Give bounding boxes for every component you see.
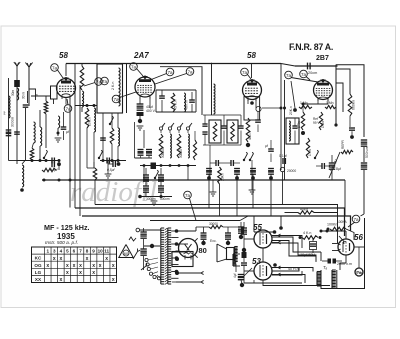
svg-text:5: 5: [66, 249, 69, 254]
svg-text:8µf: 8µf: [336, 167, 341, 171]
svg-text:2A7: 2A7: [133, 51, 149, 60]
svg-text:20000: 20000: [287, 169, 296, 173]
svg-text:Pm: Pm: [356, 270, 363, 275]
svg-text:500cm: 500cm: [160, 197, 170, 201]
svg-text:300cm: 300cm: [146, 197, 156, 201]
svg-text:Exc.: Exc.: [210, 239, 217, 243]
svg-text:4 K.n: 4 K.n: [303, 231, 311, 235]
svg-text:4: 4: [60, 249, 63, 254]
svg-text:T₆: T₆: [323, 265, 328, 270]
svg-text:20Kn: 20Kn: [221, 173, 225, 181]
svg-text:LG: LG: [35, 270, 42, 275]
svg-text:40 H.n: 40 H.n: [288, 267, 299, 271]
svg-text:7a: 7a: [353, 217, 359, 222]
svg-text:x: x: [99, 263, 102, 269]
svg-text:10: 10: [98, 249, 104, 254]
svg-text:7a: 7a: [52, 65, 58, 70]
svg-text:30m: 30m: [11, 89, 15, 96]
svg-text:µµ: µµ: [2, 111, 6, 115]
svg-text:x: x: [53, 256, 56, 262]
svg-text:500n.m: 500n.m: [365, 147, 369, 158]
svg-text:1 Rn: 1 Rn: [297, 121, 301, 128]
svg-text:600Kn: 600Kn: [352, 100, 356, 110]
svg-text:1: 1: [46, 249, 49, 254]
svg-text:XX: XX: [35, 277, 42, 282]
svg-text:80: 80: [199, 246, 207, 255]
svg-text:2000 n.m: 2000 n.m: [337, 262, 352, 266]
svg-text:µf: µf: [265, 144, 268, 148]
svg-text:30000: 30000: [209, 222, 218, 226]
svg-text:x: x: [66, 270, 69, 276]
svg-text:300000: 300000: [161, 147, 165, 158]
svg-text:100Kn: 100Kn: [327, 223, 337, 227]
svg-text:x: x: [66, 263, 69, 269]
svg-text:Ta: Ta: [35, 94, 39, 98]
svg-text:x: x: [105, 256, 108, 262]
svg-text:4µf: 4µf: [233, 273, 237, 278]
svg-text:7: 7: [79, 249, 82, 254]
svg-text:Instr. 500 a. p.f.: Instr. 500 a. p.f.: [45, 240, 78, 246]
svg-text:45 K.n: 45 K.n: [174, 100, 178, 110]
svg-text:30000: 30000: [179, 149, 183, 158]
svg-text:1 Mn: 1 Mn: [326, 101, 334, 105]
svg-text:x: x: [79, 263, 82, 269]
svg-text:11: 11: [104, 249, 109, 254]
svg-text:F.N.R. 87 A.: F.N.R. 87 A.: [289, 42, 333, 52]
svg-text:0,5µf: 0,5µf: [107, 168, 115, 172]
svg-text:0,1µf: 0,1µf: [279, 154, 287, 158]
svg-text:7a: 7a: [113, 97, 119, 102]
svg-text:x: x: [86, 256, 89, 262]
svg-text:8: 8: [86, 249, 89, 254]
svg-text:OG: OG: [34, 263, 42, 268]
svg-text:3: 3: [53, 249, 56, 254]
svg-text:20K.n: 20K.n: [289, 106, 293, 115]
svg-text:1 Kn: 1 Kn: [308, 149, 312, 156]
svg-text:7a: 7a: [185, 193, 191, 198]
svg-text:7a: 7a: [131, 64, 137, 69]
svg-text:x: x: [59, 256, 62, 262]
svg-text:30 m: 30 m: [22, 92, 26, 99]
svg-text:9: 9: [92, 249, 95, 254]
svg-text:7a: 7a: [102, 79, 108, 84]
svg-text:x: x: [92, 270, 95, 276]
svg-text:x: x: [79, 270, 82, 276]
svg-text:7a: 7a: [187, 69, 193, 74]
svg-text:40n.m: 40n.m: [185, 100, 189, 110]
svg-text:7a: 7a: [167, 70, 173, 75]
svg-text:1935: 1935: [57, 232, 75, 241]
svg-text:7a: 7a: [286, 73, 292, 78]
svg-text:KC: KC: [35, 256, 42, 261]
svg-text:7a: 7a: [301, 72, 307, 77]
svg-text:2B7: 2B7: [316, 55, 329, 62]
svg-text:400.n: 400.n: [248, 131, 252, 140]
svg-text:2 K.n: 2 K.n: [111, 82, 115, 90]
svg-text:x: x: [73, 263, 76, 269]
svg-text:20K.n: 20K.n: [88, 117, 92, 126]
svg-text:40Kn: 40Kn: [300, 208, 308, 212]
svg-text:99 V: 99 V: [313, 121, 320, 125]
svg-text:x: x: [112, 277, 115, 283]
svg-text:6: 6: [73, 249, 76, 254]
svg-text:1 Mn: 1 Mn: [321, 121, 325, 128]
svg-text:7a: 7a: [242, 70, 248, 75]
svg-text:60: 60: [124, 251, 129, 256]
svg-text:56: 56: [354, 233, 363, 242]
svg-text:MF - 125 kHz.: MF - 125 kHz.: [44, 223, 90, 232]
svg-text:100KA: 100KA: [337, 220, 347, 224]
svg-text:x: x: [46, 263, 49, 269]
svg-text:20cm: 20cm: [308, 71, 317, 75]
svg-text:58: 58: [59, 51, 68, 60]
svg-text:58: 58: [247, 51, 256, 60]
svg-text:x: x: [92, 263, 95, 269]
svg-text:x: x: [59, 277, 62, 283]
svg-text:300cm: 300cm: [11, 117, 15, 127]
svg-text:400 V: 400 V: [146, 109, 156, 113]
svg-text:µf: µf: [66, 130, 69, 134]
svg-text:x: x: [112, 263, 115, 269]
svg-text:REPR: REPR: [341, 139, 345, 149]
svg-text:10µf-50V: 10µf-50V: [300, 253, 315, 257]
